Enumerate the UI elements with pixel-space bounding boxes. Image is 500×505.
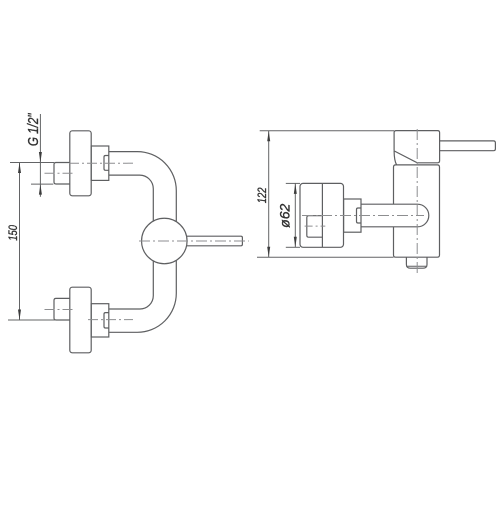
dimension d62 arrow bottom <box>294 237 297 248</box>
top pipe bend inner edge <box>109 175 154 221</box>
handle lever (front view) <box>187 236 243 246</box>
bottom pipe bend inner edge <box>109 261 154 309</box>
side escutcheon divider line <box>321 183 323 247</box>
bottom pipe bend outer edge <box>109 260 177 332</box>
dimension 122 extension line top <box>260 130 394 132</box>
dimension G1/2 arrow up <box>39 184 42 195</box>
centerline ball and lever axis <box>139 240 249 242</box>
top escutcheon flange <box>70 131 91 196</box>
dimension 150 extension line bottom <box>8 319 60 321</box>
dimension 150 arrow bottom <box>18 310 21 321</box>
aerator outlet <box>406 257 427 268</box>
dimension d62 extension line bottom <box>286 246 300 248</box>
handle lever (side) <box>440 141 496 151</box>
dimension d62 line <box>294 183 296 247</box>
dimension 122 line <box>268 131 270 257</box>
centerline top inlet axis <box>69 162 133 164</box>
handle cap left silhouette arc <box>394 151 396 165</box>
bottom connector bump <box>104 313 109 328</box>
side thread nipple <box>307 216 323 238</box>
bottom inlet thread nipple G1/2 <box>54 298 70 320</box>
top connector body <box>91 146 109 180</box>
side connector body <box>344 199 361 232</box>
dimension d62 arrow top <box>294 183 297 194</box>
top pipe bend outer edge <box>109 152 177 222</box>
handle cap (side) <box>394 131 440 163</box>
svg-text:G 1/2": G 1/2" <box>25 112 42 146</box>
dimension G1/2 extension line <box>31 183 53 185</box>
centerline side main axis <box>302 215 424 217</box>
dimension 150 extension line top <box>10 162 54 164</box>
bottom escutcheon flange <box>70 287 91 353</box>
svg-text:150: 150 <box>7 225 20 241</box>
centerline bottom nipple axis <box>45 309 76 311</box>
side connector bump <box>357 208 362 223</box>
top inlet thread nipple G1/2 <box>54 163 70 185</box>
aerator rim line <box>407 265 426 267</box>
dimension G1/2 leader line <box>39 114 41 197</box>
centerline bottom inlet axis <box>88 319 133 321</box>
faucet body (side) <box>394 165 440 257</box>
top connector bump <box>104 156 109 171</box>
mixer ball body <box>142 218 188 264</box>
side pipe with rounded bend end <box>361 204 429 227</box>
centerline top nipple axis <box>45 172 76 174</box>
dimension 122 arrow top <box>267 131 270 142</box>
dimension 122 extension line bottom <box>257 256 394 258</box>
svg-text:122: 122 <box>256 187 269 203</box>
dimension 150 arrow top <box>18 163 21 174</box>
dimension G1/2 arrow down <box>39 152 42 163</box>
dimension 122 arrow bottom <box>267 247 270 258</box>
dimension 150 line <box>19 163 21 321</box>
side escutcheon outer <box>300 183 344 247</box>
centerline side nipple axis <box>305 225 326 227</box>
svg-text:ø62: ø62 <box>276 204 292 228</box>
centerline body vertical axis <box>416 129 418 273</box>
dimension d62 extension line top <box>286 182 300 184</box>
bottom connector body <box>91 304 109 337</box>
